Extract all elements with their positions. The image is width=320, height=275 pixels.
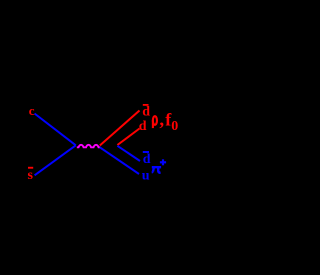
wire u outgoing (to pi+) bbox=[100, 147, 139, 174]
svg-text:d: d bbox=[139, 119, 147, 134]
wire c quark incoming bbox=[35, 114, 76, 146]
svg-text:d: d bbox=[142, 105, 150, 120]
node s-bar overline bbox=[28, 167, 33, 169]
W boson wavy line bbox=[77, 145, 101, 147]
wire d outgoing (to rho/f0) bbox=[117, 129, 139, 146]
node rho glyph bbox=[153, 116, 157, 125]
svg-text:,: , bbox=[159, 110, 164, 131]
svg-text:s: s bbox=[28, 168, 34, 183]
svg-text:u: u bbox=[142, 169, 150, 184]
svg-text:c: c bbox=[29, 103, 35, 118]
node pi glyph bbox=[152, 166, 161, 168]
node pi plus sign bbox=[160, 161, 166, 163]
wire s-bar quark incoming bbox=[35, 145, 76, 175]
svg-text:0: 0 bbox=[171, 119, 178, 134]
wire d-bar outgoing (to rho/f0) bbox=[100, 111, 140, 146]
wire d-bar outgoing (to pi+) bbox=[117, 146, 140, 161]
node d-bar red overline bbox=[143, 104, 149, 106]
svg-text:d: d bbox=[143, 152, 151, 167]
node d-bar blue overline bbox=[143, 151, 149, 153]
